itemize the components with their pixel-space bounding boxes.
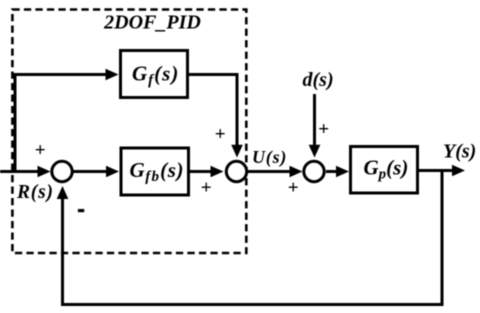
svg-text:+: + [201, 178, 212, 199]
svg-text:+: + [215, 124, 226, 145]
svg-text:d(s): d(s) [303, 69, 334, 91]
svg-text:+: + [35, 140, 46, 161]
svg-text:2DOF_PID: 2DOF_PID [103, 12, 201, 34]
svg-text:R(s): R(s) [16, 182, 54, 203]
svg-text:+: + [318, 119, 329, 140]
svg-text:Y(s): Y(s) [443, 141, 476, 163]
svg-text:+: + [288, 178, 299, 199]
svg-text:Gf(s): Gf(s) [132, 62, 179, 89]
svg-text:Gp(s): Gp(s) [364, 156, 409, 183]
svg-text:U(s): U(s) [252, 147, 287, 168]
